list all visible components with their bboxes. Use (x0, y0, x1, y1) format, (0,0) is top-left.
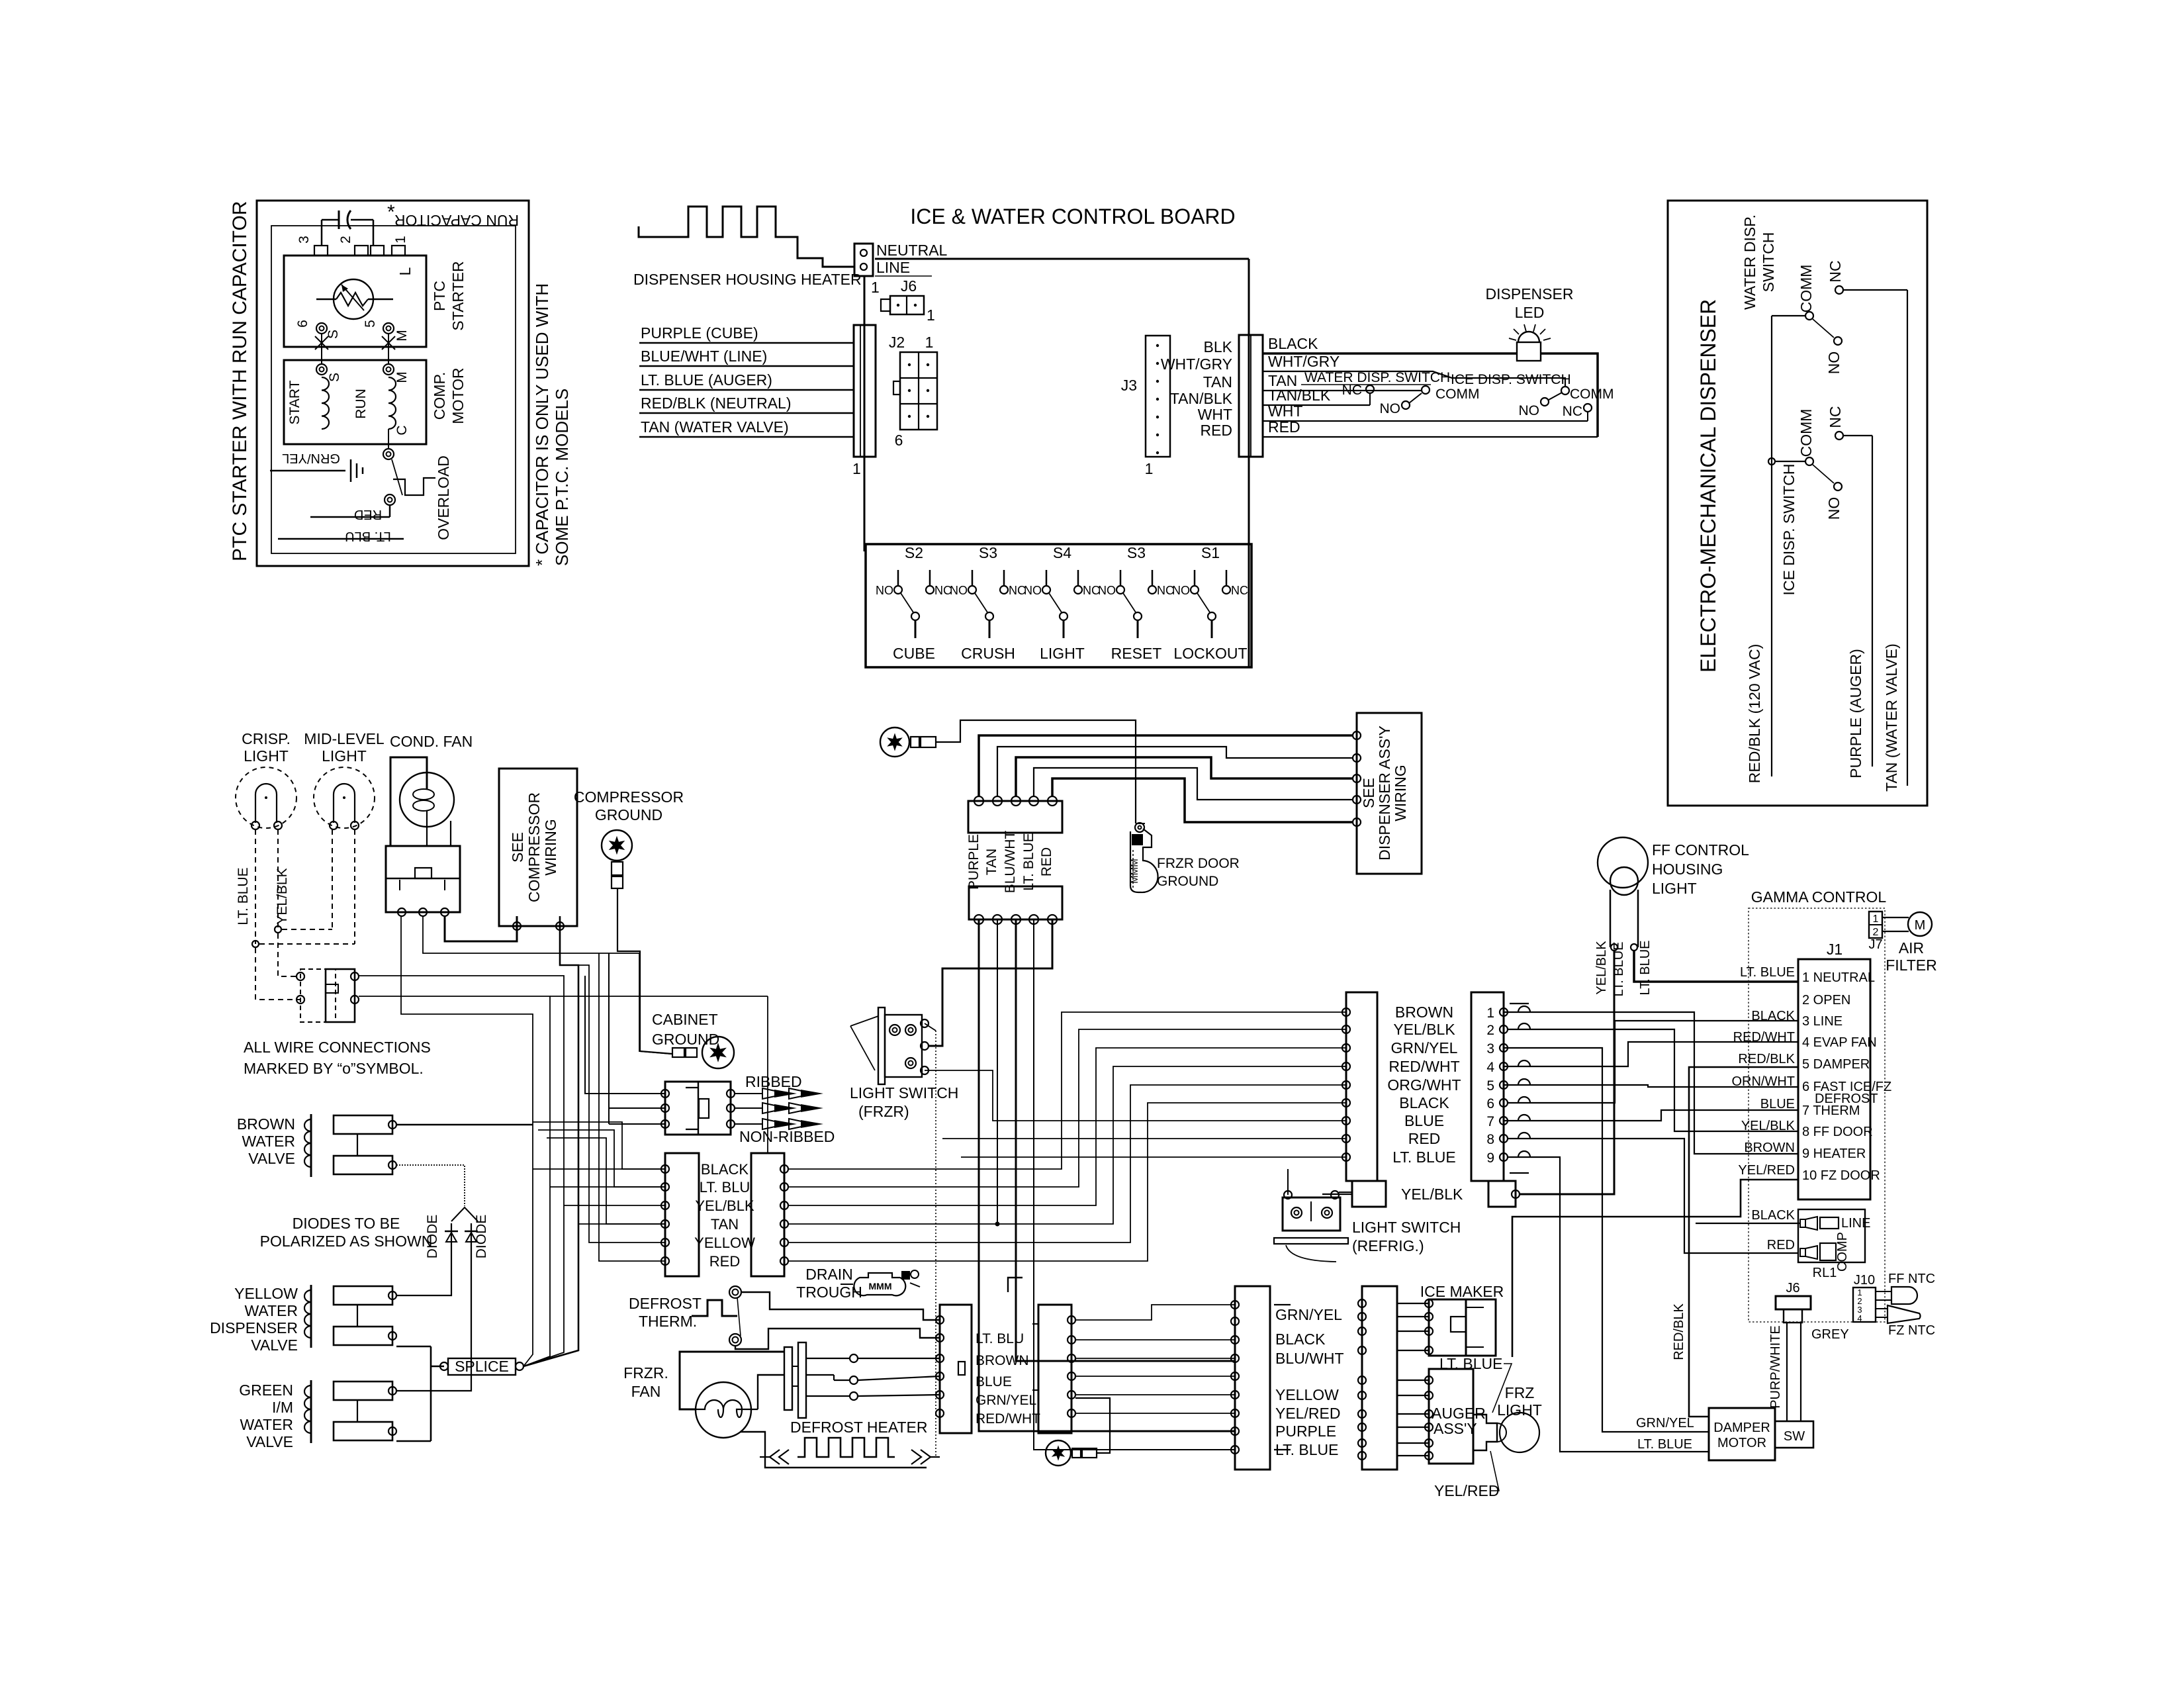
PTC outer box (257, 201, 529, 566)
svg-text:GROUND: GROUND (1157, 874, 1218, 889)
air filter motor (1882, 912, 1937, 974)
nine pin connector (1471, 992, 1508, 1181)
RED/BLK 120VAC label (1746, 644, 1763, 783)
svg-text:COMPRESSOR: COMPRESSOR (574, 788, 684, 806)
svg-text:BROWN: BROWN (237, 1115, 295, 1133)
ticks nine pin (1510, 1004, 1529, 1173)
svg-text:MOTOR: MOTOR (449, 367, 467, 424)
svg-text:SWITCH: SWITCH (1760, 232, 1777, 293)
harness connector lower (969, 886, 1062, 924)
wire BLUE/WHT (LINE) (639, 348, 854, 366)
wire PURPLE (CUBE) (639, 324, 854, 343)
svg-text:BLACK: BLACK (1399, 1094, 1449, 1111)
gamma control board outline (1749, 908, 1885, 1322)
label ORG/WHT column (1387, 1076, 1461, 1094)
dashed wire mid right (354, 829, 355, 944)
yel/blk box right (1488, 1181, 1520, 1207)
svg-text:* CAPACITOR IS ONLY USED WITH: * CAPACITOR IS ONLY USED WITH (532, 283, 552, 566)
wire WHT (1263, 402, 1588, 421)
svg-text:2: 2 (338, 236, 353, 244)
svg-text:S: S (327, 373, 342, 382)
svg-text:DRAIN: DRAIN (805, 1266, 853, 1283)
svg-text:YEL/BLK: YEL/BLK (1401, 1186, 1463, 1203)
label LT. BLU pair (700, 1179, 751, 1196)
svg-text:YELLOW: YELLOW (1275, 1386, 1339, 1403)
switch S4 LIGHT (1024, 544, 1100, 662)
wire brown valve top (396, 1124, 533, 1125)
svg-text:DEFROST HEATER: DEFROST HEATER (790, 1419, 927, 1436)
wire RED pin8 to RL1 (1508, 1139, 1798, 1253)
wire LT. BLUE (AUGER) (639, 371, 854, 390)
svg-text:J2: J2 (889, 334, 905, 351)
label YEL/RED right group (1275, 1405, 1340, 1422)
YEL/BLK dashed label (275, 868, 290, 924)
svg-text:TAN: TAN (1203, 373, 1232, 391)
svg-text:WHT/GRY: WHT/GRY (1161, 355, 1232, 373)
svg-text:NON-RIBBED: NON-RIBBED (739, 1128, 835, 1145)
svg-text:NC: NC (1563, 404, 1582, 419)
RED wire (310, 505, 390, 522)
J1 pin labels (1802, 970, 1891, 1183)
svg-text:BROWN: BROWN (1744, 1141, 1795, 1155)
svg-text:*: * (387, 201, 395, 223)
svg-text:VALVE: VALVE (246, 1433, 293, 1450)
svg-text:1: 1 (925, 334, 934, 351)
svg-text:6: 6 (295, 320, 310, 328)
defrost heater element (760, 1438, 940, 1464)
svg-text:LIGHT SWITCH: LIGHT SWITCH (850, 1084, 958, 1102)
svg-text:LIGHT SWITCH: LIGHT SWITCH (1352, 1219, 1461, 1236)
wire COMM to RED/BLK (1772, 316, 1805, 776)
dashed wire mid left (332, 829, 333, 929)
svg-text:AIR: AIR (1899, 939, 1924, 957)
svg-text:BLK: BLK (1204, 338, 1233, 355)
terminal 2 (338, 236, 384, 256)
svg-text:NO: NO (1098, 584, 1116, 597)
label LT. BLU heater bar (976, 1331, 1024, 1346)
svg-text:WATER: WATER (240, 1416, 294, 1433)
label YEL/BLK pair (695, 1197, 754, 1214)
svg-text:COMP.: COMP. (431, 372, 448, 420)
label RED pair (709, 1253, 740, 1270)
svg-text:GREY: GREY (1811, 1327, 1849, 1342)
svg-text:2: 2 (1873, 927, 1879, 938)
wire yellow+green valve to splice (396, 1346, 444, 1441)
svg-text:GRN/YEL: GRN/YEL (1636, 1416, 1694, 1430)
svg-text:1: 1 (1145, 460, 1154, 477)
dashed wire yel/blk (277, 829, 279, 929)
svg-text:NO: NO (1380, 401, 1401, 416)
see compressor wiring box (499, 769, 577, 930)
PURPLE AUGER label (1847, 649, 1864, 778)
svg-text:TAN (WATER VALVE): TAN (WATER VALVE) (641, 418, 789, 436)
brown water valve (237, 1114, 396, 1177)
svg-text:TAN (WATER VALVE): TAN (WATER VALVE) (1883, 643, 1900, 792)
svg-text:LT. BLUE: LT. BLUE (1392, 1149, 1455, 1166)
wires heater to bar (858, 1358, 940, 1396)
svg-text:WATER: WATER (245, 1302, 298, 1319)
svg-text:RED: RED (1200, 422, 1232, 439)
svg-text:LOCKOUT: LOCKOUT (1173, 645, 1247, 662)
RED label RL1 (1767, 1238, 1795, 1252)
wire BROWN pin1 to heater (1504, 1012, 1798, 1154)
svg-text:GAMMA CONTROL: GAMMA CONTROL (1751, 888, 1887, 906)
door switch wires right (550, 996, 768, 1153)
mid-level light lamp (314, 767, 375, 829)
defrost therm top wire (741, 1292, 940, 1320)
svg-text:ASS'Y: ASS'Y (1433, 1420, 1477, 1437)
crisp light lamp (236, 767, 296, 829)
ribbed connector feed wires (585, 953, 665, 1124)
dashed wire lt.blue (255, 829, 256, 944)
label GRN/YEL column (1391, 1039, 1458, 1056)
svg-text:6: 6 (1486, 1096, 1494, 1111)
label RED/WHT heater bar (976, 1411, 1040, 1427)
damper motor box (1709, 1408, 1775, 1460)
PTC starter box U1 (284, 256, 426, 347)
svg-text:NC: NC (1827, 406, 1844, 428)
wire YEL/RED fz door (1512, 1180, 1798, 1357)
water disp switch SW1 (1797, 260, 1844, 374)
splice wire bundle (359, 916, 670, 1366)
svg-text:LT. BLUE: LT. BLUE (1021, 833, 1036, 890)
wire RED to board (1263, 418, 1598, 437)
svg-text:LT. BLUE: LT. BLUE (1638, 941, 1653, 996)
connector J6 (881, 277, 935, 324)
svg-text:TAN/BLK: TAN/BLK (1170, 390, 1233, 407)
OVERLOAD label (435, 455, 452, 540)
label BLACK pair (701, 1161, 749, 1178)
svg-text:SPLICE: SPLICE (455, 1358, 509, 1375)
frzr fan left wire (680, 1352, 784, 1409)
wire BLUE pin7 to therm (1504, 1110, 1798, 1121)
svg-text:RIBBED: RIBBED (745, 1073, 802, 1090)
svg-text:GREEN: GREEN (239, 1382, 293, 1399)
svg-text:CABINET: CABINET (652, 1011, 718, 1028)
svg-text:7: 7 (1486, 1114, 1494, 1129)
label GRN/YEL heater bar (976, 1393, 1036, 1408)
FF control housing light label (1652, 841, 1749, 897)
svg-text:DISPENSER HOUSING HEATER: DISPENSER HOUSING HEATER (633, 271, 862, 288)
svg-text:COMP: COMP (1835, 1232, 1850, 1272)
all wire connections note (244, 1039, 431, 1077)
wire cross X left (315, 336, 328, 350)
bottom ground lug (1046, 1398, 1110, 1466)
GRN/YEL label damper (1636, 1416, 1694, 1430)
dashed wires to door switch (255, 933, 300, 1000)
svg-text:NO: NO (1024, 584, 1042, 597)
ice maker box (1425, 1299, 1496, 1356)
wire TAN to dispenser box (997, 747, 1353, 796)
connector J6 gamma (1776, 1281, 1811, 1421)
wire yel/blk left (1322, 1194, 1352, 1195)
svg-text:WATER DISP.: WATER DISP. (1741, 214, 1758, 310)
label RED/WHT column (1388, 1058, 1459, 1075)
label YELLOW right group (1275, 1386, 1339, 1403)
wires bar to ice maker (1397, 1303, 1429, 1350)
svg-text:BLUE: BLUE (976, 1374, 1012, 1389)
svg-text:RED/WHT: RED/WHT (1388, 1058, 1459, 1075)
dashed junction 1 (275, 926, 332, 933)
PTC footnote (532, 283, 572, 566)
svg-text:TROUGH: TROUGH (796, 1284, 862, 1301)
svg-text:FF NTC: FF NTC (1888, 1272, 1935, 1286)
label TAN pair (711, 1216, 739, 1233)
left pair feed verticals (533, 1122, 666, 1224)
svg-text:3: 3 (296, 236, 312, 244)
PTC starter section title (229, 201, 251, 561)
svg-text:4: 4 (1486, 1060, 1494, 1075)
svg-text:NEUTRAL: NEUTRAL (876, 242, 948, 259)
terminal 3 (296, 236, 328, 256)
wire hop bumps (1518, 1006, 1530, 1157)
svg-text:YEL/RED: YEL/RED (1275, 1405, 1340, 1422)
light switch frzr (850, 1008, 929, 1084)
mid-level light label (304, 730, 385, 765)
connector J7 (1868, 912, 1882, 952)
wire red down to frzr switch (929, 919, 1052, 1046)
svg-text:WIRING: WIRING (542, 819, 559, 876)
svg-text:GROUND: GROUND (595, 806, 662, 823)
svg-text:NO: NO (876, 584, 893, 597)
svg-text:L: L (396, 267, 414, 275)
PTC STARTER label (431, 261, 467, 330)
label WHT/GRY (1161, 355, 1232, 373)
row LT BLUE long (961, 1156, 1346, 1158)
black connector pair left bar (661, 1153, 699, 1276)
PURP/WHITE label (1768, 1325, 1783, 1409)
wire YEL/BLK pin2 to ff door (1508, 1029, 1798, 1131)
svg-text:WHT/GRY: WHT/GRY (1268, 353, 1340, 370)
svg-text:COMPRESSOR: COMPRESSOR (525, 792, 543, 902)
comp motor box M1 (284, 360, 426, 444)
wire blu/wht down (1016, 919, 1235, 1361)
svg-text:4 EVAP FAN: 4 EVAP FAN (1802, 1035, 1877, 1050)
svg-text:J3: J3 (1121, 377, 1137, 394)
svg-text:BLACK: BLACK (1275, 1331, 1326, 1348)
svg-text:M: M (1915, 918, 1926, 933)
diode pair (445, 1207, 478, 1266)
label LT. BLUE column (1392, 1149, 1455, 1166)
label GRN/YEL right group (1275, 1306, 1342, 1323)
EM dispenser title (1696, 299, 1720, 673)
door rocker switch (296, 969, 359, 1022)
svg-text:OVERLOAD: OVERLOAD (435, 455, 452, 540)
svg-text:YEL/BLK: YEL/BLK (275, 868, 290, 924)
svg-text:GRN/YEL: GRN/YEL (976, 1393, 1036, 1408)
wire brown valve bottom to diodes (396, 1165, 465, 1206)
svg-text:LT. BLUE: LT. BLUE (1439, 1355, 1502, 1372)
frzr fan label (623, 1364, 668, 1400)
cond fan wires up (390, 757, 451, 846)
wire TAN/BLK (1263, 387, 1370, 405)
label BLU/WHT right group (1275, 1350, 1344, 1367)
svg-text:FRZR.: FRZR. (623, 1364, 668, 1382)
svg-text:LT. BLU: LT. BLU (700, 1179, 751, 1196)
svg-text:PURPLE: PURPLE (966, 834, 981, 890)
svg-text:DIODE: DIODE (474, 1215, 489, 1259)
svg-text:J6: J6 (1786, 1281, 1799, 1295)
light switch refrig label (1352, 1219, 1461, 1254)
svg-text:1 NEUTRAL: 1 NEUTRAL (1802, 970, 1875, 985)
run capacitor C1 (322, 201, 519, 246)
svg-text:COMM: COMM (1570, 387, 1614, 402)
wire LT. BLUE neutral bus (1634, 951, 1798, 982)
svg-text:PTC: PTC (431, 281, 448, 311)
row RED long (942, 1138, 1346, 1139)
svg-text:LIGHT: LIGHT (1652, 880, 1697, 897)
svg-text:GRN/YEL: GRN/YEL (1391, 1039, 1458, 1056)
defrost heater label (790, 1419, 927, 1436)
TAN WATER VALVE label (1883, 643, 1900, 792)
LT. BLUE vert label 2 (1638, 941, 1653, 996)
svg-text:I/M: I/M (272, 1399, 293, 1416)
svg-text:WHT: WHT (1198, 406, 1232, 423)
COMP MOTOR label (431, 367, 467, 424)
svg-text:LT. BLUE: LT. BLUE (1637, 1437, 1692, 1452)
cabinet ground lug (672, 1037, 734, 1068)
svg-text:FILTER: FILTER (1886, 957, 1937, 974)
svg-text:RED: RED (354, 507, 382, 522)
svg-text:WHT: WHT (1268, 402, 1302, 420)
defrost therm (629, 1286, 741, 1346)
svg-text:DEFROST: DEFROST (629, 1295, 702, 1312)
svg-text:COMM: COMM (1797, 409, 1815, 457)
DISPENSER HOUSING HEATER label (633, 271, 862, 288)
LT. BLUE label damper (1637, 1437, 1692, 1452)
svg-text:LINE: LINE (876, 259, 910, 276)
auger assy label (1432, 1405, 1486, 1437)
svg-text:YEL/BLK: YEL/BLK (1594, 941, 1609, 995)
svg-text:RED/WHT: RED/WHT (976, 1411, 1040, 1427)
motor S terminal (316, 364, 342, 382)
svg-text:BROWN: BROWN (1395, 1004, 1453, 1021)
corner bracket symbol (1008, 1278, 1023, 1292)
svg-text:C: C (394, 425, 410, 435)
overload switch contact bottom (385, 494, 395, 505)
svg-text:BLUE: BLUE (1404, 1112, 1444, 1129)
PTC thermistor RT1 (316, 279, 393, 319)
ticks right group (1274, 1305, 1291, 1450)
svg-text:COMM: COMM (1435, 387, 1480, 402)
label BROWN heater bar (976, 1353, 1029, 1368)
black connector pair right bar (751, 1153, 788, 1276)
svg-text:PURPLE: PURPLE (1275, 1423, 1336, 1440)
row BLUE from frzr switch (925, 1070, 1346, 1121)
svg-text:J1: J1 (1827, 941, 1843, 958)
RED/BLK vert label (1672, 1303, 1686, 1360)
NEUTRAL label (876, 242, 948, 259)
ribbed connector (661, 1073, 835, 1145)
svg-text:DISPENSER: DISPENSER (1486, 285, 1574, 303)
wire diode right to green valve (396, 1266, 471, 1391)
svg-text:LINE: LINE (1841, 1216, 1870, 1231)
cond fan connector box (386, 846, 460, 916)
wire RED to dispenser box (1052, 778, 1353, 822)
light switch frzr label (850, 1084, 958, 1120)
wire PURPLE to dispenser box (979, 735, 1353, 796)
dashed junction 2 (252, 941, 355, 947)
YEL/BLK label bottom (1401, 1186, 1463, 1203)
svg-text:ELECTRO-MECHANICAL DISPENSER: ELECTRO-MECHANICAL DISPENSER (1696, 299, 1720, 673)
svg-text:LT. BLUE (AUGER): LT. BLUE (AUGER) (641, 371, 772, 389)
svg-text:6: 6 (895, 432, 903, 449)
svg-text:TAN/BLK: TAN/BLK (1268, 387, 1331, 404)
motor M terminal (383, 364, 410, 383)
pair feed wires from bundle (533, 1169, 665, 1224)
svg-text:DAMPER: DAMPER (1713, 1421, 1770, 1435)
drain trough label (796, 1266, 862, 1301)
svg-text:YEL/RED: YEL/RED (1738, 1163, 1795, 1178)
wire BLACK pin6 to line (1508, 1021, 1798, 1103)
connector J10 (1853, 1273, 1891, 1323)
svg-text:1: 1 (1873, 914, 1879, 925)
WATER DISP SWITCH label (1741, 214, 1777, 310)
svg-text:LIGHT: LIGHT (1497, 1401, 1542, 1419)
wire run to overload (388, 429, 389, 449)
svg-text:1: 1 (852, 460, 861, 477)
svg-text:MMM: MMM (869, 1281, 892, 1291)
svg-text:1: 1 (871, 279, 880, 296)
svg-text:GRN/YEL: GRN/YEL (1275, 1306, 1342, 1323)
wire RED/BLK to damper motor (1689, 1067, 1798, 1417)
ICE DISP SWITCH label (1780, 464, 1797, 596)
svg-text:ICE MAKER: ICE MAKER (1420, 1283, 1504, 1300)
svg-text:STARTER: STARTER (449, 261, 467, 330)
harness ground lug (880, 727, 936, 757)
svg-text:WATER: WATER (242, 1133, 296, 1150)
see dispenser assy wiring box (1353, 713, 1422, 874)
svg-text:RED/BLK: RED/BLK (1738, 1052, 1795, 1066)
svg-text:NC: NC (1231, 584, 1248, 597)
svg-text:COMM: COMM (1797, 265, 1815, 313)
wire BLU/WHT to dispenser box (1016, 757, 1353, 796)
switch S1 LOCKOUT (1172, 544, 1248, 662)
start winding (287, 377, 329, 429)
overload switch blade (392, 459, 402, 495)
svg-text:POLARIZED AS SHOWN: POLARIZED AS SHOWN (260, 1233, 433, 1250)
control board title (910, 205, 1235, 228)
label BLUE column (1404, 1112, 1444, 1129)
switch S3 CRUSH (950, 544, 1026, 662)
svg-text:SEE: SEE (1360, 778, 1377, 808)
connector J2 (889, 334, 937, 449)
label L (396, 267, 414, 275)
svg-text:BLUE/WHT (LINE): BLUE/WHT (LINE) (641, 348, 767, 365)
heater connector bar (936, 1305, 972, 1433)
svg-text:FRZR DOOR: FRZR DOOR (1157, 856, 1240, 871)
svg-text:LED: LED (1515, 304, 1545, 321)
svg-text:RED/BLK (NEUTRAL): RED/BLK (NEUTRAL) (641, 395, 791, 412)
light switch refrig (1274, 1191, 1348, 1262)
svg-text:2: 2 (1486, 1023, 1494, 1038)
FF control housing light (1598, 837, 1648, 951)
label BROWN column (1395, 1004, 1453, 1021)
svg-text:PURPLE (CUBE): PURPLE (CUBE) (641, 324, 758, 342)
svg-text:FF CONTROL: FF CONTROL (1652, 841, 1749, 859)
svg-text:CRISP.: CRISP. (242, 730, 291, 747)
neutral/line terminal block (854, 244, 873, 276)
svg-text:BLACK: BLACK (1751, 1208, 1795, 1223)
svg-text:YEL/BLK: YEL/BLK (695, 1197, 754, 1214)
wire NC to TAN (1843, 290, 1907, 786)
svg-text:YEL/RED: YEL/RED (1434, 1482, 1499, 1499)
svg-text:S2: S2 (905, 544, 923, 561)
svg-text:ICE DISP. SWITCH: ICE DISP. SWITCH (1451, 372, 1571, 387)
wire WHT/GRY (1263, 353, 1565, 386)
svg-text:3: 3 (1486, 1041, 1494, 1056)
ground symbol (270, 451, 363, 482)
